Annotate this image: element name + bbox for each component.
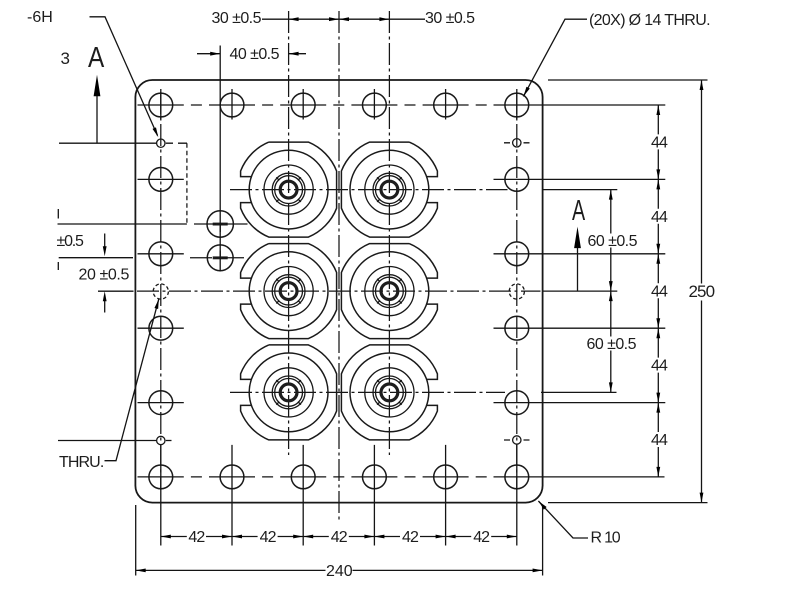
hidden boundary vertical xyxy=(186,143,188,224)
cavity boss B2 xyxy=(341,244,437,339)
small hole bottom-left xyxy=(157,436,165,444)
svg-text:60 ±0.5: 60 ±0.5 xyxy=(588,233,638,250)
dim line 60 lower xyxy=(610,291,612,392)
svg-text:42: 42 xyxy=(473,529,490,546)
svg-text:42: 42 xyxy=(331,529,348,546)
plug port P1 xyxy=(207,211,233,237)
leader THRU xyxy=(105,299,159,461)
svg-text:44: 44 xyxy=(651,209,668,226)
dashed hole mid-right xyxy=(509,284,524,299)
cavity boss C2 xyxy=(341,345,437,440)
section letter A left xyxy=(88,41,104,73)
dim line 60 upper xyxy=(610,190,612,292)
svg-text:3: 3 xyxy=(61,49,70,68)
extension lines 250 xyxy=(548,80,708,503)
holes bottom row xyxy=(149,465,529,489)
left dim arrows xyxy=(104,234,106,248)
plate vertical centerline xyxy=(338,11,340,520)
cavity boss B1 xyxy=(241,244,337,339)
left reference line row 291 xyxy=(98,290,134,292)
dim line 40 xyxy=(197,53,306,55)
boss column centerline 1 xyxy=(288,11,290,455)
small hole top-right xyxy=(513,139,521,147)
svg-text:44: 44 xyxy=(651,432,668,449)
svg-text:-6H: -6H xyxy=(27,9,53,26)
extension line x=220 xyxy=(219,46,221,272)
hole crosshairs right column + extension lines to 44-chain xyxy=(494,179,666,402)
svg-text:(20X) Ø 14 THRU.: (20X) Ø 14 THRU. xyxy=(589,12,710,29)
boss column centerline 2 xyxy=(388,11,390,455)
dim line 250 xyxy=(701,80,703,503)
svg-text:A: A xyxy=(572,195,586,227)
svg-text:250: 250 xyxy=(689,282,715,301)
holes left column xyxy=(149,168,173,415)
column centerline right xyxy=(516,92,518,490)
svg-text:42: 42 xyxy=(188,529,205,546)
svg-text:30 ±0.5: 30 ±0.5 xyxy=(212,10,262,27)
plug port P2 xyxy=(207,245,233,271)
left reference line row 440 xyxy=(58,440,157,442)
section letter A right xyxy=(572,195,586,227)
svg-text:±0.5: ±0.5 xyxy=(57,233,85,250)
boss row centerline 1 xyxy=(230,189,508,191)
left reference line row 143 xyxy=(59,142,157,144)
left reference line row 257.7 xyxy=(59,257,133,259)
svg-text:42: 42 xyxy=(260,529,277,546)
leader 20X xyxy=(523,19,587,96)
column centerline left xyxy=(160,92,162,490)
section arrow left xyxy=(96,96,98,143)
dim chain 44 line xyxy=(657,105,659,477)
hole crosshairs bottom row + extension lines to 42-chain xyxy=(138,445,665,546)
boss row centerline 3 xyxy=(230,391,505,393)
svg-text:240: 240 xyxy=(326,563,353,580)
svg-text:44: 44 xyxy=(651,358,668,375)
hole crosshairs left column xyxy=(138,179,184,402)
svg-text:R 10: R 10 xyxy=(591,530,621,547)
extension lines 240 xyxy=(136,505,543,576)
section arrow right xyxy=(577,246,579,291)
svg-text:A: A xyxy=(88,41,104,73)
small hole top-left xyxy=(157,139,165,147)
svg-text:42: 42 xyxy=(402,529,419,546)
cavity boss A1 xyxy=(241,142,337,237)
svg-text:60 ±0.5: 60 ±0.5 xyxy=(587,336,637,353)
holes right column xyxy=(505,168,529,415)
dashed hole mid-left xyxy=(153,284,168,299)
plate outline xyxy=(135,80,542,503)
svg-text:30 ±0.5: 30 ±0.5 xyxy=(425,10,475,27)
hole crosshairs top row xyxy=(138,89,666,120)
leader -6H xyxy=(90,17,158,136)
svg-text:40 ±0.5: 40 ±0.5 xyxy=(230,46,280,63)
dim line 30/30 xyxy=(262,18,425,20)
svg-text:44: 44 xyxy=(651,283,668,300)
cavity boss C1 xyxy=(241,345,337,440)
dim chain 42 line xyxy=(161,536,517,538)
boss row centerline 2 xyxy=(137,290,541,292)
cavity boss A2 xyxy=(341,142,437,237)
svg-text:44: 44 xyxy=(651,135,668,152)
svg-text:20 ±0.5: 20 ±0.5 xyxy=(79,267,130,284)
small hole bottom-right xyxy=(513,436,521,444)
leader R10 xyxy=(538,501,588,538)
dim line 240 xyxy=(136,569,543,571)
svg-text:THRU.: THRU. xyxy=(59,454,103,471)
holes top row xyxy=(149,93,529,117)
left reference line row 224 xyxy=(58,223,187,225)
